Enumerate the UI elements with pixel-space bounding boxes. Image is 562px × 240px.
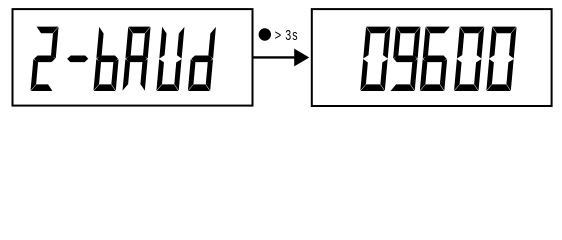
7-seg char '6' (420, 27, 450, 91)
7-seg char '0' (486, 27, 516, 91)
7-seg char '-' (67, 56, 88, 63)
svg-text:3s: 3s (285, 26, 298, 43)
right display panel (312, 9, 552, 106)
arrow wire from left panel to right panel (253, 56, 296, 58)
arrowhead (294, 49, 309, 67)
7-seg char '9' (391, 27, 421, 91)
svg-text:>: > (275, 26, 282, 43)
7-seg char '0' (360, 27, 390, 91)
button-press label: filled circle (259, 28, 271, 40)
7-seg char 'U' (156, 27, 184, 91)
7-seg char 'A' (123, 27, 151, 91)
7-seg char '0' (454, 27, 484, 91)
7-seg char '2' (31, 27, 59, 91)
7-seg char 'd' (188, 27, 216, 91)
left display panel (13, 9, 253, 106)
7-seg char 'b' (93, 27, 118, 91)
